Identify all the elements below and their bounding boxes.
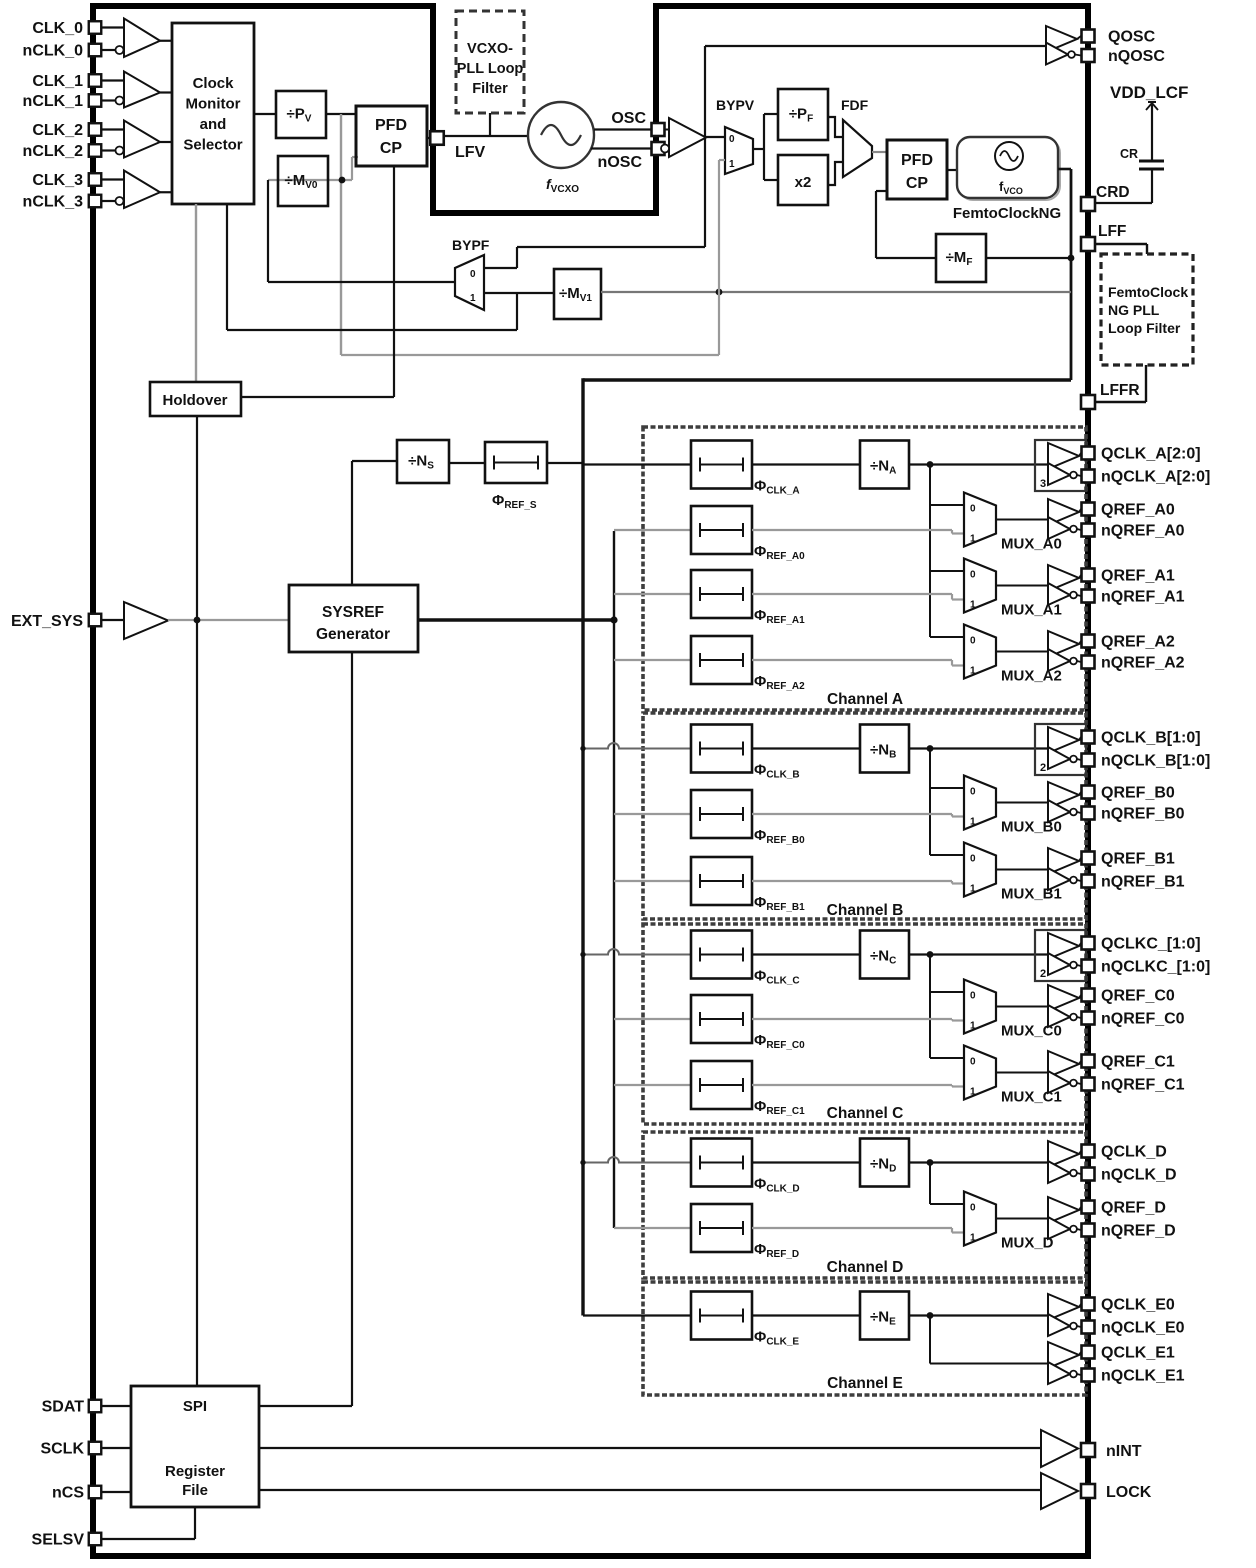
wire CLK_1 pair to buffer [101,79,124,81]
pin nQCLK_B[1:0] [1082,754,1095,767]
phase adjust REF_A2 [691,636,752,684]
divider NB [860,725,909,773]
input buffer CLK_1 [124,72,160,108]
svg-text:nQREF_C0: nQREF_C0 [1101,1011,1185,1028]
svg-text:÷MV0: ÷MV0 [285,172,318,191]
svg-text:nQCLK_A[2:0]: nQCLK_A[2:0] [1101,469,1210,486]
pin CRD [1081,197,1095,211]
svg-text:Channel E: Channel E [827,1375,903,1392]
pin nQREF_A0 [1082,524,1095,537]
wire phase REF_D to mux [752,1227,952,1229]
block SYSREF Generator [289,585,418,652]
block Holdover [150,382,241,416]
svg-text:nQCLK_D: nQCLK_D [1101,1167,1177,1184]
pin LFV [430,131,444,145]
wire mux B1 to buffer [996,869,1048,871]
wire phase to divider NC [752,953,860,955]
output buffer nINT [1041,1430,1078,1467]
gray feedback vertical x341 [340,114,342,355]
pin QREF_C1 [1082,1055,1095,1068]
wire OSC to QOSC buffer [705,45,1046,47]
svg-text:PFD: PFD [901,152,933,169]
svg-text:nQREF_D: nQREF_D [1101,1223,1176,1240]
output buffer QREF_D [1048,1197,1079,1223]
svg-text:1: 1 [970,817,976,828]
wire OSC down to BYPF input 0 [517,246,705,248]
pin nCLK_2 [89,144,102,157]
divider NE [860,1292,909,1340]
divider PF [778,89,828,140]
svg-text:Channel B: Channel B [827,902,904,919]
pin CLK_2 [89,123,102,136]
pin nINT [1081,1443,1095,1457]
wire buffer 1 to clock monitor [160,91,172,93]
svg-text:MUX_A0: MUX_A0 [1001,536,1062,553]
svg-text:2: 2 [1040,968,1046,980]
svg-text:ΦREF_D: ΦREF_D [754,1241,799,1260]
output buffer QREF_C0 [1048,985,1079,1011]
svg-text:nQREF_B1: nQREF_B1 [1101,874,1185,891]
svg-text:ΦREF_A2: ΦREF_A2 [754,673,805,692]
wire SCLK to SPI [101,1447,131,1449]
divider NC [860,931,909,979]
svg-text:FDF: FDF [841,97,869,113]
mux MUX_A0 [964,493,996,547]
svg-text:÷NE: ÷NE [870,1309,896,1328]
svg-text:ΦCLK_D: ΦCLK_D [754,1176,800,1195]
wire fVCO output [1058,168,1071,171]
svg-text:VDD_LCF: VDD_LCF [1110,83,1188,102]
svg-text:ΦCLK_B: ΦCLK_B [754,762,800,781]
wire nCS to SPI [101,1491,131,1493]
phase adjust REF_C1 [691,1061,752,1109]
svg-text:nINT: nINT [1106,1443,1142,1460]
svg-text:CLK_3: CLK_3 [32,172,83,189]
wire NS to SYSREF generator [352,460,397,462]
wire PFD NG to fVCO [947,169,957,171]
svg-text:0: 0 [970,787,976,798]
wire clock spine to REF_S [547,462,583,464]
svg-text:EXT_SYS: EXT_SYS [11,613,83,630]
wire buffer 3 to clock monitor [160,191,172,193]
svg-text:PFD: PFD [375,117,407,134]
svg-text:0: 0 [970,504,976,515]
SYSREF spine vertical [613,531,615,1228]
svg-text:0: 0 [970,1057,976,1068]
svg-text:nQCLK_E0: nQCLK_E0 [1101,1320,1185,1337]
wire SYSREF spine to phase REF_C0 [614,1018,691,1020]
output buffer QREF_C1 [1048,1051,1079,1077]
wire SYSREF spine to phase REF_C1 [614,1084,691,1086]
svg-text:1: 1 [729,159,735,170]
wire SYSREF spine to phase REF_A2 [614,659,691,661]
pin QCLK_E1 [1082,1346,1095,1359]
wire fan to mux C1 input 0 [930,1057,964,1059]
wire divider NA to output buffer [909,463,1048,465]
phase adjust CLK_E [691,1292,752,1340]
svg-text:SELSV: SELSV [32,1532,85,1549]
mux MUX_A2 [964,625,996,679]
clock spine vertical [581,378,584,1315]
Channel C boundary box [643,924,1086,1124]
svg-text:1: 1 [970,600,976,611]
svg-text:fVCXO: fVCXO [546,176,579,195]
svg-text:SYSREF: SYSREF [322,604,384,621]
svg-text:ΦREF_B0: ΦREF_B0 [754,827,805,846]
pin LOCK [1081,1484,1095,1498]
svg-text:0: 0 [470,269,476,280]
pin QREF_C0 [1082,989,1095,1002]
svg-text:1: 1 [970,1087,976,1098]
wire phase to divider NA [752,463,860,465]
wire clock monitor to divider PV [254,113,276,115]
input buffer CLK_2 [124,121,160,158]
output buffer QCLK_B [1048,727,1079,753]
pin nQCLK_E1 [1082,1369,1095,1382]
svg-text:QREF_C0: QREF_C0 [1101,988,1175,1005]
svg-text:÷NS: ÷NS [408,453,434,472]
svg-text:nQREF_A0: nQREF_A0 [1101,523,1185,540]
wire CLK_2 pair to buffer [101,128,124,130]
wire PFD CP to LFV pin [427,137,432,139]
wire OSC buffer output vertical [704,46,706,247]
wire clock spine to phase CLK_D [583,1157,691,1163]
svg-text:0: 0 [970,991,976,1002]
svg-text:Selector: Selector [183,137,242,154]
wire holdover output to PFD CP bottom [241,396,394,398]
svg-text:ΦCLK_E: ΦCLK_E [754,1329,799,1348]
svg-text:nCS: nCS [52,1485,84,1502]
divider NS [397,440,449,483]
PFD CP block of VCXO PLL [356,106,427,166]
svg-text:0: 0 [970,570,976,581]
svg-text:QREF_B0: QREF_B0 [1101,785,1175,802]
svg-text:QOSC: QOSC [1108,29,1156,46]
wire MF to fVCO net [986,257,1071,259]
wire CLK_0 pair to buffer [101,26,124,28]
wire MV0 feedback net (gray) [268,179,352,181]
svg-text:File: File [182,1482,208,1499]
wire fan to mux A0 input 0 [930,504,964,506]
wire phase to divider NB [752,747,860,749]
wire SYSREF spine to phase REF_B0 [614,813,691,815]
multiplier x2 [778,155,828,205]
wire FDF to PFD CP NG [872,151,887,153]
divider ND [860,1139,909,1187]
pin QCLK_D [1082,1145,1095,1158]
mux MUX_D [964,1192,996,1246]
svg-text:nCLK_3: nCLK_3 [23,194,84,211]
pin QCLKC_[1:0] [1082,937,1095,950]
output buffer QCLK_D [1048,1141,1079,1167]
wire mux A0 to buffer [996,519,1048,521]
pin nCLK_1 [89,94,102,107]
wire SDAT to SPI [101,1405,131,1407]
OSC input buffer [669,118,706,157]
phase delay REF_S [485,442,547,483]
wire fVCO output vertical to S2 [1070,169,1073,380]
wire phase REF_A2 to mux [752,659,952,661]
wire clock monitor to holdover (gray) [195,204,197,382]
svg-text:QREF_D: QREF_D [1101,1200,1166,1217]
svg-text:nQCLK_B[1:0]: nQCLK_B[1:0] [1101,753,1210,770]
svg-text:1: 1 [970,666,976,677]
wire SYSREF generator to SPI [351,652,353,1406]
output buffer QREF_B0 [1048,782,1079,808]
svg-text:ΦREF_C1: ΦREF_C1 [754,1098,805,1117]
PFD CP block of FemtoClock NG PLL [887,140,947,199]
phase adjust REF_A0 [691,506,752,554]
wire divider NE to QCLK_E1 buffer [927,1312,934,1319]
pin QREF_A1 [1082,569,1095,582]
block Clock Monitor and Selector [172,23,254,204]
svg-text:FemtoClock: FemtoClock [1108,284,1188,300]
wire fan to mux B1 input 0 [930,854,964,856]
wire OSC to BYPV input 0 [706,136,725,138]
mux MUX_C0 [964,980,996,1034]
svg-text:÷PF: ÷PF [789,106,813,125]
output buffer QCLK_E1 [1048,1342,1079,1368]
output buffer QCLK_C [1048,933,1079,959]
wire divider ND to output buffer [909,1161,1048,1163]
wire clock spine to phase CLK_C [583,949,691,955]
wire phase REF_C1 to mux [752,1084,952,1086]
svg-text:CP: CP [380,140,403,157]
pin nQREF_C1 [1082,1078,1095,1091]
pin QOSC [1082,30,1095,43]
svg-text:1: 1 [470,293,476,304]
wire SPI to LOCK buffer [259,1489,1041,1491]
output buffer QREF_B1 [1048,848,1079,874]
gray vertical x719 [718,160,720,355]
VCXO-PLL Loop Filter dashed box [456,11,524,113]
wire divider NA fan to muxes [927,461,934,468]
block SPI Register File [131,1386,259,1507]
mux MUX_B1 [964,843,996,897]
svg-text:nOSC: nOSC [598,154,643,171]
wire phase REF_B0 to mux [752,813,952,815]
svg-text:x2: x2 [795,174,812,191]
wire loop filter to LFFR pin [1145,365,1147,402]
pin nQCLK_E0 [1082,1321,1095,1334]
pin QCLK_B[1:0] [1082,731,1095,744]
wire capacitor to CRD pin [1096,202,1152,204]
wire divider ND fan to muxes [927,1159,934,1166]
wire loop filter to LFV net [489,113,491,136]
svg-text:CR: CR [1120,147,1138,161]
wire fan to mux D input 0 [930,1203,964,1205]
pin nOSC [652,142,665,155]
SYSREF output wire [418,618,614,621]
svg-text:2: 2 [1040,762,1046,774]
chip boundary outline with VCXO notch [93,6,1088,1556]
svg-text:÷MV1: ÷MV1 [559,285,592,304]
svg-text:QCLK_E0: QCLK_E0 [1101,1297,1175,1314]
svg-text:Channel D: Channel D [827,1259,904,1276]
wire MV1 output to BYPF input 1 [484,292,554,294]
svg-text:1: 1 [970,1021,976,1032]
pin QREF_A2 [1082,635,1095,648]
svg-text:QREF_A2: QREF_A2 [1101,634,1175,651]
svg-text:3: 3 [1040,478,1046,490]
svg-text:1: 1 [970,534,976,545]
clock spine from fVCO [583,378,1071,381]
divider PV [276,91,326,138]
svg-text:Channel A: Channel A [827,691,903,708]
pin QREF_B0 [1082,786,1095,799]
svg-text:nCLK_1: nCLK_1 [23,93,84,110]
pin LFFR [1081,395,1095,409]
svg-text:QCLK_E1: QCLK_E1 [1101,1345,1175,1362]
pin nQREF_A1 [1082,590,1095,603]
svg-text:VCXO-: VCXO- [467,41,513,57]
wire LFV to VCXO [444,135,528,137]
pin nQCLK_A[2:0] [1082,470,1095,483]
wire clock spine to phase CLK_A [583,463,691,465]
svg-text:LFV: LFV [455,144,486,161]
phase adjust CLK_A [691,441,752,489]
phase adjust REF_B1 [691,857,752,905]
output buffer LOCK [1041,1473,1078,1509]
wire MV1 input (gray) [601,291,1071,293]
wire VCXO to OSC pin [594,128,652,130]
svg-text:LOCK: LOCK [1106,1484,1152,1501]
pin nQCLKC_[1:0] [1082,960,1095,973]
svg-text:1: 1 [970,884,976,895]
svg-text:0: 0 [970,1203,976,1214]
svg-text:CLK_1: CLK_1 [32,73,83,90]
svg-text:nQREF_A2: nQREF_A2 [1101,655,1185,672]
wire phase REF_C0 to mux [752,1018,952,1020]
svg-text:CRD: CRD [1096,184,1130,201]
svg-text:ΦREF_S: ΦREF_S [492,492,537,511]
svg-text:BYPF: BYPF [452,237,490,253]
pin nQREF_B0 [1082,807,1095,820]
wire phase to divider ND [752,1161,860,1163]
phase adjust CLK_B [691,725,752,773]
FemtoClock NG PLL Loop Filter dashed box [1101,254,1193,365]
svg-text:÷MF: ÷MF [946,249,973,268]
divider MF [936,234,986,282]
wire divider NB to output buffer [909,747,1048,749]
svg-text:0: 0 [970,636,976,647]
svg-text:MUX_B0: MUX_B0 [1001,819,1062,836]
wire divider NE to output buffer [909,1314,1048,1316]
wire mux D to buffer [996,1218,1048,1220]
svg-text:CLK_2: CLK_2 [32,122,83,139]
svg-text:nQREF_B0: nQREF_B0 [1101,806,1185,823]
svg-text:ΦREF_A0: ΦREF_A0 [754,543,805,562]
pin OSC [652,123,665,136]
svg-text:MUX_A1: MUX_A1 [1001,602,1062,619]
pin nQREF_A2 [1082,656,1095,669]
pin EXT_SYS [89,614,102,627]
wire LFF to loop filter [1095,243,1147,245]
svg-text:MUX_D: MUX_D [1001,1235,1054,1252]
svg-text:LFF: LFF [1098,223,1126,240]
wire buffer 2 to clock monitor [160,141,172,143]
pin nCLK_3 [89,195,102,208]
svg-text:ΦREF_C0: ΦREF_C0 [754,1032,805,1051]
svg-text:CLK_0: CLK_0 [32,20,83,37]
Channel D boundary box [643,1132,1086,1278]
wire SELSV to SPI [101,1538,195,1540]
output buffer QREF_A1 [1048,565,1079,591]
wire buffer 0 to clock monitor [160,40,172,42]
output buffer QOSC [1046,26,1077,52]
svg-text:÷NA: ÷NA [870,458,896,477]
svg-text:Holdover: Holdover [162,392,227,409]
svg-text:nCLK_2: nCLK_2 [23,143,84,160]
wire divider NC fan to muxes [927,951,934,958]
wire mux B0 to buffer [996,802,1048,804]
svg-text:Loop Filter: Loop Filter [1108,320,1181,336]
Channel A boundary box [643,427,1086,710]
pin SDAT [89,1400,102,1413]
wire phase REF_A0 to mux [752,529,952,531]
pin nQREF_D [1082,1224,1095,1237]
svg-text:QREF_B1: QREF_B1 [1101,851,1175,868]
Channel B boundary box [643,713,1086,919]
pin nCLK_0 [89,44,102,57]
svg-text:ΦCLK_C: ΦCLK_C [754,968,800,987]
pin CLK_1 [89,74,102,87]
svg-text:Clock: Clock [193,75,235,92]
wire mux A1 to buffer [996,585,1048,587]
svg-text:QCLKC_[1:0]: QCLKC_[1:0] [1101,936,1201,953]
wire SPI to nINT buffer [259,1447,1041,1449]
fVCO oscillator block FemtoClockNG [959,139,1060,200]
wire x2 to FDF [828,162,843,185]
wire mux A2 to buffer [996,651,1048,653]
pin QREF_A0 [1082,503,1095,516]
wire divider NB fan to muxes [927,745,934,752]
mux MUX_B0 [964,776,996,830]
pin QCLK_E0 [1082,1298,1095,1311]
wire holdover down to SPI [196,416,198,1386]
mux MUX_C1 [964,1046,996,1100]
svg-text:Generator: Generator [316,626,390,643]
junction MV0 output [339,177,346,184]
svg-text:MUX_A2: MUX_A2 [1001,668,1062,685]
svg-text:FemtoClockNG: FemtoClockNG [953,205,1061,222]
svg-text:0: 0 [970,854,976,865]
wire BYPV output split [753,148,764,150]
svg-text:NG PLL: NG PLL [1108,302,1160,318]
svg-text:Register: Register [165,1463,225,1480]
svg-text:PLL Loop: PLL Loop [457,61,524,77]
svg-text:ΦREF_B1: ΦREF_B1 [754,894,805,913]
pin nQREF_C0 [1082,1012,1095,1025]
wire BYPV input 1 (gray) [719,159,725,161]
gray horizontal y355 [341,354,719,356]
wire fan to mux A2 input 0 [930,636,964,638]
wire VCXO to nOSC pin [591,147,652,149]
wire OSC pins to buffer [665,129,670,131]
phase adjust CLK_D [691,1139,752,1187]
svg-text:÷NB: ÷NB [870,742,896,761]
phase adjust REF_C0 [691,995,752,1043]
wire clock spine to phase CLK_B [583,743,691,749]
svg-text:nQOSC: nQOSC [1108,48,1165,65]
input buffer CLK_3 [124,171,160,209]
svg-text:QCLK_B[1:0]: QCLK_B[1:0] [1101,730,1201,747]
divider MV1 [554,269,601,319]
wire phase to divider NE [752,1314,860,1316]
svg-text:QREF_A1: QREF_A1 [1101,568,1175,585]
pin CLK_3 [89,173,102,186]
output buffer QCLK_A [1048,443,1079,469]
